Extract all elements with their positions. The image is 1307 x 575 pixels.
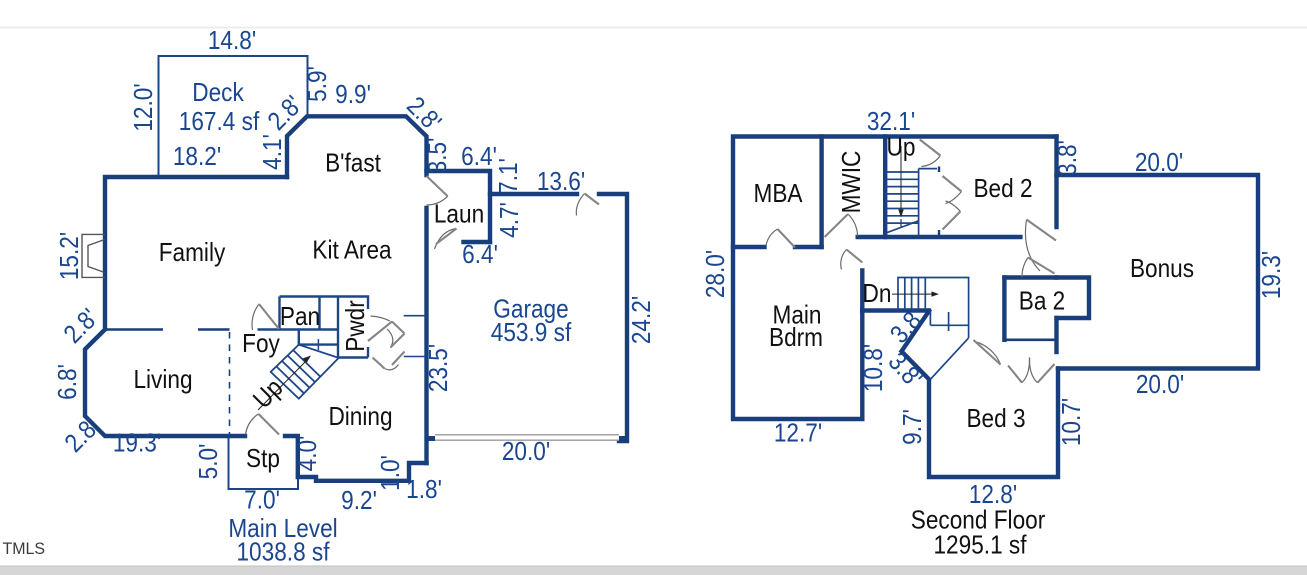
svg-text:Laun: Laun	[434, 200, 484, 229]
svg-text:1038.8 sf: 1038.8 sf	[236, 538, 329, 567]
svg-text:3.5': 3.5'	[424, 138, 453, 174]
svg-text:Living: Living	[133, 366, 192, 395]
svg-text:12.0': 12.0'	[130, 83, 159, 131]
svg-text:1.8': 1.8'	[406, 476, 442, 505]
svg-text:Foy: Foy	[242, 330, 280, 359]
svg-text:Ba 2: Ba 2	[1019, 287, 1066, 316]
svg-text:24.2': 24.2'	[628, 296, 657, 344]
svg-text:20.0': 20.0'	[1135, 149, 1183, 178]
svg-text:18.2': 18.2'	[173, 143, 221, 172]
svg-text:Stp: Stp	[246, 445, 280, 474]
svg-text:6.8': 6.8'	[54, 364, 83, 400]
svg-text:Bdrm: Bdrm	[769, 324, 823, 353]
svg-text:7.0': 7.0'	[244, 486, 280, 515]
svg-text:1.0': 1.0'	[377, 455, 406, 491]
svg-text:4.0': 4.0'	[294, 436, 323, 472]
svg-text:MBA: MBA	[753, 180, 803, 209]
svg-text:Bed 3: Bed 3	[966, 405, 1025, 434]
svg-text:3.8': 3.8'	[1054, 140, 1083, 176]
svg-text:4.7': 4.7'	[496, 202, 525, 238]
svg-text:Dn: Dn	[863, 280, 892, 309]
svg-text:19.3': 19.3'	[1258, 251, 1287, 299]
svg-text:12.8': 12.8'	[969, 481, 1017, 510]
svg-text:Pan: Pan	[280, 303, 320, 332]
svg-text:4.1': 4.1'	[259, 134, 288, 170]
svg-text:MWIC: MWIC	[838, 151, 867, 214]
svg-text:Up: Up	[887, 133, 916, 162]
svg-text:20.0': 20.0'	[1136, 371, 1184, 400]
svg-text:9.7': 9.7'	[899, 409, 928, 445]
svg-text:Deck: Deck	[192, 79, 244, 108]
svg-text:9.2': 9.2'	[341, 487, 377, 516]
svg-text:5.0': 5.0'	[195, 444, 224, 480]
svg-text:Kit Area: Kit Area	[312, 236, 392, 265]
svg-text:23.5': 23.5'	[425, 344, 454, 392]
svg-text:Bonus: Bonus	[1130, 255, 1194, 284]
svg-text:9.9': 9.9'	[335, 81, 371, 110]
svg-text:32.1': 32.1'	[867, 108, 915, 137]
svg-text:Dining: Dining	[328, 403, 392, 432]
svg-text:6.4': 6.4'	[462, 241, 498, 270]
svg-text:167.4 sf: 167.4 sf	[179, 108, 260, 137]
svg-text:19.3': 19.3'	[113, 429, 161, 458]
svg-text:TMLS: TMLS	[3, 540, 46, 559]
svg-text:Family: Family	[159, 239, 226, 268]
svg-text:B'fast: B'fast	[325, 149, 381, 178]
svg-text:453.9 sf: 453.9 sf	[491, 319, 572, 348]
svg-text:15.2': 15.2'	[56, 232, 85, 280]
svg-text:Pwdr: Pwdr	[342, 300, 371, 352]
svg-text:5.9': 5.9'	[304, 66, 333, 102]
svg-text:28.0': 28.0'	[702, 250, 731, 298]
svg-text:Bed 2: Bed 2	[973, 175, 1032, 204]
svg-text:13.6': 13.6'	[537, 168, 585, 197]
svg-text:14.8': 14.8'	[208, 27, 256, 56]
svg-text:12.7': 12.7'	[774, 419, 822, 448]
svg-text:10.7': 10.7'	[1058, 398, 1087, 446]
svg-text:20.0': 20.0'	[502, 438, 550, 467]
svg-text:7.1': 7.1'	[495, 158, 524, 194]
svg-text:6.4': 6.4'	[461, 143, 497, 172]
svg-text:1295.1 sf: 1295.1 sf	[933, 531, 1026, 560]
